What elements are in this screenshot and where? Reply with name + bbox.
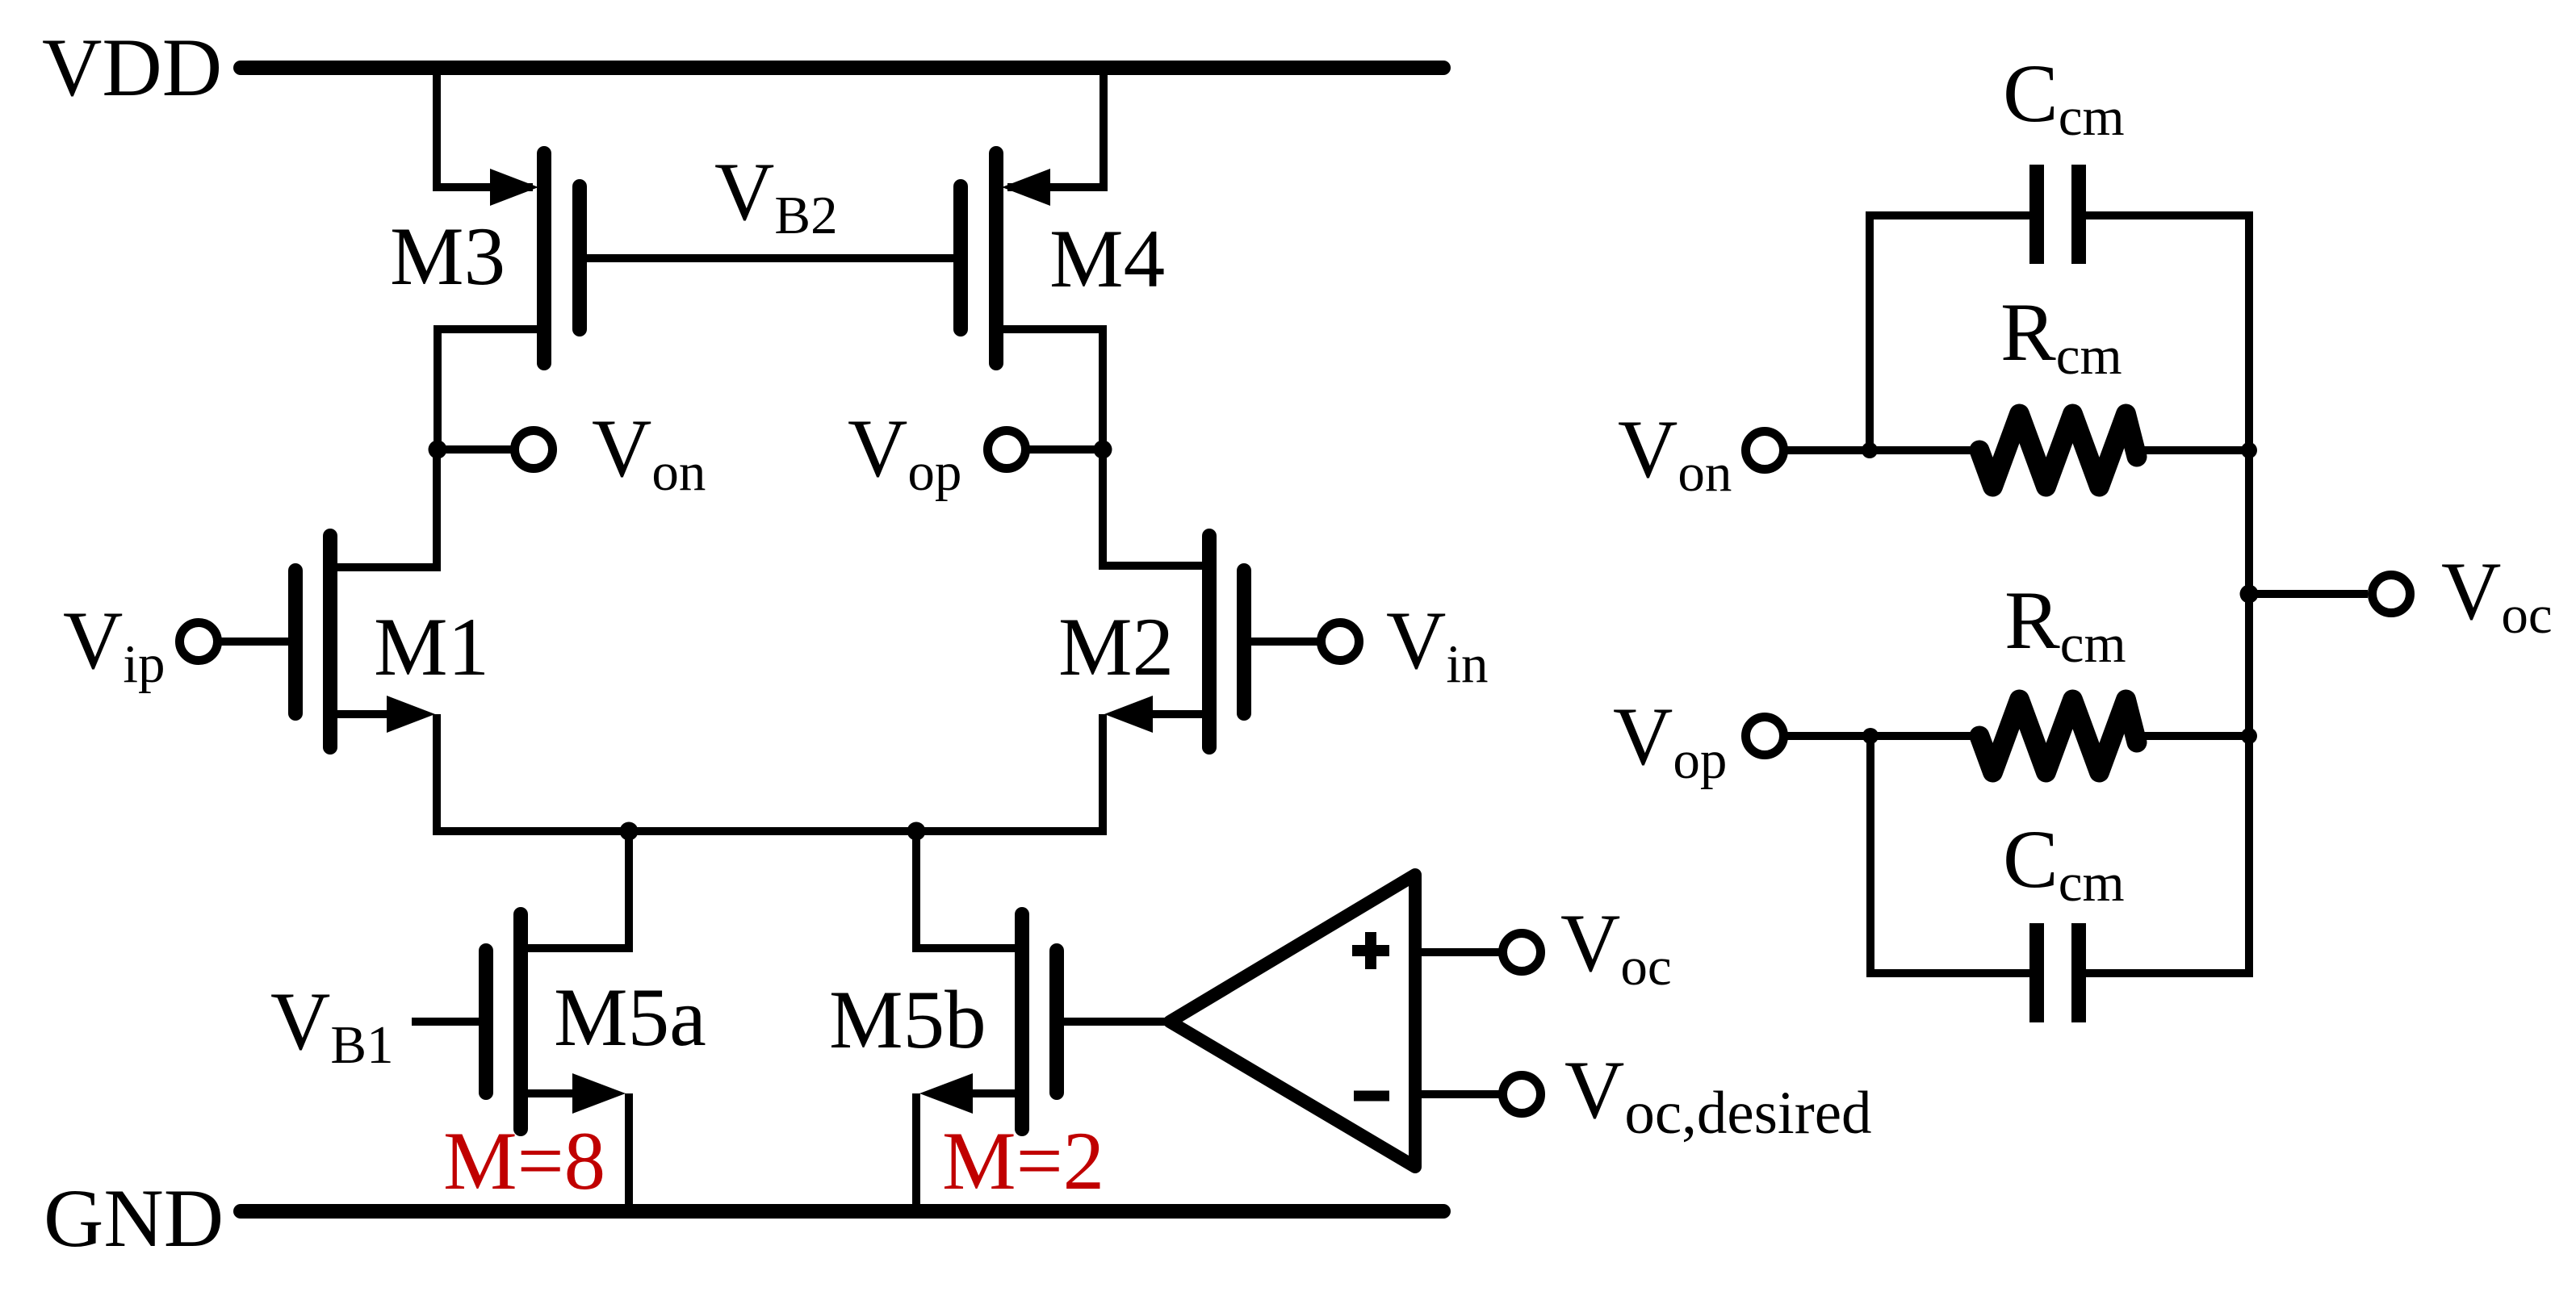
svg-text:M5b: M5b [829, 974, 986, 1066]
wire op-amp output to M5b gate [1057, 1018, 1170, 1026]
transistor M1 [295, 536, 435, 747]
wire M3 drain to node Von [438, 329, 544, 449]
node Von branch [1862, 442, 1878, 458]
svg-text:M4: M4 [1049, 213, 1165, 305]
wire Ccm bottom left branch [1870, 736, 2029, 973]
wire M2 drain to node Vop [1103, 449, 1209, 566]
wire VB1 to M5a gate [412, 1018, 479, 1026]
wire M4 drain to node Vop [996, 329, 1103, 449]
wire Voc out [2249, 590, 2368, 598]
node Rcm top bus [2241, 442, 2257, 458]
svg-text:Ccm: Ccm [2003, 813, 2125, 913]
svg-text:M3: M3 [390, 211, 505, 303]
svg-text:Voc: Voc [1560, 897, 1672, 997]
terminal Vip [180, 623, 218, 661]
svg-text:Voc,desired: Voc,desired [1564, 1044, 1872, 1147]
terminal Vop right [1746, 717, 1784, 755]
wire op-amp minus input [1422, 1090, 1499, 1098]
wire Von node to terminal [438, 445, 512, 454]
node Rcm bottom bus [2241, 728, 2257, 744]
wire M1 drain to node Von [330, 449, 437, 567]
svg-text:Vip: Vip [63, 595, 165, 694]
wire Vin to M2 gate [1251, 638, 1322, 646]
capacitor Ccm top [2037, 165, 2079, 264]
terminal Voc sense [1503, 934, 1541, 972]
resistor Rcm top [1979, 414, 2137, 487]
svg-text:Voc: Voc [2441, 546, 2553, 645]
transistor M3 [490, 153, 580, 363]
VDD rail [241, 61, 1443, 75]
op-amp U1 [1170, 875, 1415, 1167]
transistor M4 [961, 153, 1050, 363]
wire Ccm bottom right branch [2086, 969, 2249, 977]
wire Ccm top right branch [2086, 211, 2249, 219]
svg-text:GND: GND [44, 1173, 224, 1265]
wire tail to M5b drain [916, 831, 1022, 948]
svg-text:VB1: VB1 [270, 976, 394, 1075]
wire Von to Rcm [1787, 446, 1979, 454]
svg-text:Ccm: Ccm [2003, 48, 2125, 147]
svg-text:M=8: M=8 [443, 1115, 605, 1207]
resistor Rcm bottom [1979, 700, 2137, 772]
transistor M5b [919, 914, 1057, 1129]
node Von [429, 441, 447, 459]
svg-text:Von: Von [592, 403, 706, 502]
wire tail bus [433, 827, 1107, 835]
wire M2 source to tail [1099, 714, 1107, 835]
wire tail to M5a drain [521, 831, 629, 948]
wire M1 source to tail [433, 714, 441, 835]
node tail M5b [907, 822, 926, 841]
svg-text:Rcm: Rcm [2004, 575, 2126, 674]
terminal Von [515, 431, 553, 469]
transistor M2 [1104, 536, 1244, 747]
wire Vop to Rcm [1787, 732, 1979, 740]
wire Ccm top left branch [1870, 215, 2029, 450]
svg-text:VB2: VB2 [714, 146, 838, 245]
wire M5b source to GND [912, 1093, 920, 1211]
capacitor Ccm bottom [2037, 923, 2079, 1022]
svg-text:M1: M1 [374, 601, 489, 693]
svg-text:Vop: Vop [1613, 691, 1727, 790]
wire op-amp plus input [1422, 948, 1499, 956]
node Vop [1094, 441, 1112, 459]
svg-text:Von: Von [1618, 403, 1732, 503]
svg-text:Vop: Vop [848, 403, 961, 502]
wire M5a source to GND [625, 1093, 633, 1211]
svg-text:VDD: VDD [42, 22, 222, 114]
wire VB2 gate bus M3-M4 [580, 254, 961, 262]
wire Rcm bottom to bus [2131, 732, 2249, 740]
wire Vip to M1 gate [218, 638, 288, 646]
terminal Vin [1322, 623, 1359, 661]
terminal Von right [1746, 432, 1784, 470]
wire VDD to M4 source [1007, 68, 1104, 187]
terminal Voc out [2373, 575, 2411, 613]
node tail M5a [620, 822, 639, 841]
svg-text:Vin: Vin [1386, 595, 1489, 694]
svg-text:M=2: M=2 [942, 1115, 1104, 1207]
GND rail [241, 1204, 1443, 1219]
wire Rcm top to bus [2131, 446, 2249, 454]
terminal Voc desired [1503, 1076, 1541, 1114]
wire VDD to M3 source [437, 68, 533, 187]
svg-text:M2: M2 [1058, 601, 1174, 693]
terminal Vop [988, 431, 1026, 469]
node Vop branch [1862, 728, 1879, 744]
node Voc out [2240, 585, 2259, 604]
svg-text:Rcm: Rcm [2000, 286, 2122, 386]
transistor M5a [486, 914, 626, 1129]
svg-text:M5a: M5a [554, 972, 706, 1064]
wire right bus [2245, 211, 2253, 977]
wire Vop node to terminal [1028, 445, 1103, 454]
